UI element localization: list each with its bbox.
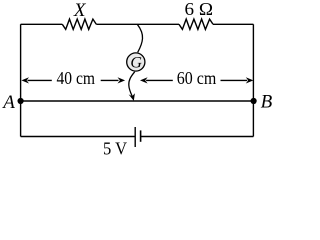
wire left vertical [20, 24, 22, 136]
wire top middle segment [96, 23, 179, 25]
svg-text:5 V: 5 V [103, 139, 127, 158]
wire bottom left segment [21, 136, 135, 138]
svg-text:G: G [130, 54, 142, 71]
wire top right segment [213, 23, 253, 25]
dimension 60 cm right arrow [221, 79, 248, 81]
resistor R2 6 ohm [179, 19, 213, 29]
wire right vertical [252, 24, 254, 136]
dimension 40 cm right arrow [101, 79, 119, 81]
node B dot [251, 98, 257, 104]
bridge wire A-B [21, 100, 254, 102]
svg-text:40 cm: 40 cm [57, 68, 96, 88]
battery long plate [134, 127, 136, 147]
svg-text:X: X [73, 0, 87, 21]
wire galvanometer top curve [137, 24, 142, 52]
jockey arrowhead [129, 93, 135, 101]
svg-text:B: B [261, 92, 273, 113]
wire galvanometer bottom curve to jockey [129, 72, 135, 98]
battery short plate [140, 130, 142, 141]
dimension 60 cm left arrow [140, 77, 148, 83]
galvanometer G [127, 53, 145, 71]
svg-text:A: A [1, 92, 15, 113]
resistor X [62, 19, 96, 29]
node A dot [18, 98, 24, 104]
svg-text:60 cm: 60 cm [177, 68, 217, 88]
wire bottom right segment [141, 136, 254, 138]
dimension 40 cm left arrow [21, 77, 29, 83]
svg-text:6 Ω: 6 Ω [185, 0, 214, 19]
wire top left segment [21, 23, 63, 25]
